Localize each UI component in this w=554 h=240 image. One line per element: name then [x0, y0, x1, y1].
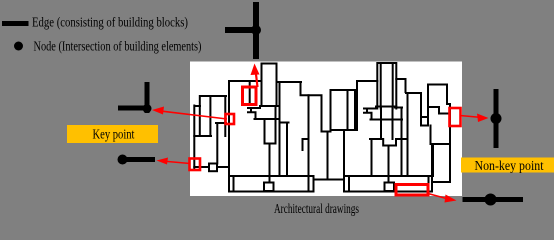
arrowhead non-key vertical: [477, 114, 489, 123]
right edge vertical: [447, 104, 450, 182]
arrow up from RB1: [256, 70, 258, 87]
key point corner node dot: [143, 104, 152, 113]
tower' floor line: [376, 106, 396, 108]
right wing step: [277, 82, 322, 95]
key point end node dot: [118, 155, 128, 165]
tower' outline: [377, 63, 396, 109]
right wing' stair: [430, 126, 432, 145]
center descender to right base: [343, 130, 345, 192]
left wing mid vertical and ledge: [216, 123, 226, 164]
tower' stem to foot: [388, 146, 390, 183]
stairs below B1: [248, 108, 260, 119]
non-key horizontal line: [463, 197, 524, 202]
right base rect: [344, 144, 432, 192]
example T junction node dot: [251, 25, 261, 35]
right wing stairs: [303, 139, 309, 150]
arrowhead key point end: [157, 158, 169, 165]
right wing' upper step: [396, 79, 421, 93]
right wing' ledge: [395, 108, 402, 177]
key point end element horizontal line: [122, 157, 155, 162]
red box RB3 left edge: [190, 159, 201, 171]
legend node dot: [14, 42, 23, 51]
svg-text:Architectural drawings: Architectural drawings: [274, 201, 359, 216]
base connector: [314, 179, 345, 181]
white drawing canvas: [190, 62, 462, 197]
right wing tall edge: [322, 96, 331, 132]
key point corner element vertical line: [145, 82, 150, 113]
non-key horizontal node dot: [485, 194, 497, 206]
arrow to key point end: [162, 161, 190, 164]
block B1 inner divider: [249, 81, 251, 105]
right of tower ledge: [280, 123, 289, 177]
svg-text:Edge (consisting of building b: Edge (consisting of building blocks): [32, 15, 188, 30]
left wing upper rect: [194, 96, 226, 136]
tower' slab steps: [364, 109, 402, 120]
arrowhead key point corner: [152, 107, 164, 115]
right tail ledge: [433, 144, 450, 176]
tower' foot square: [385, 183, 395, 192]
svg-text:Node (Intersection of building: Node (Intersection of building elements): [34, 39, 202, 54]
non-key label box: [461, 158, 554, 173]
svg-text:Non-key point: Non-key point: [475, 158, 544, 173]
right mid block with notch: [370, 139, 406, 146]
arrow to key point corner: [158, 111, 227, 119]
key point corner element horizontal line: [118, 106, 149, 111]
key point label box: [67, 125, 158, 143]
red box RB1 near tower top: [243, 87, 257, 105]
right wing' descender: [407, 93, 409, 176]
left wing bottom ledge: [194, 166, 229, 168]
arrowhead up: [251, 64, 260, 76]
left wing foot square: [209, 164, 217, 172]
architectural line drawing: [194, 63, 450, 192]
block B1' top: [357, 80, 377, 82]
tower foot square: [264, 183, 274, 192]
red box RB4 right edge: [450, 108, 461, 126]
block B1 top: [229, 80, 262, 82]
red highlight boxes and arrows: [158, 70, 482, 200]
tower stem to foot: [269, 144, 271, 183]
legend edge sample line: [2, 21, 29, 26]
left base rect: [229, 176, 314, 192]
tower outline: [262, 64, 280, 177]
center block C: [331, 90, 358, 130]
non-key vertical line: [494, 89, 499, 148]
example T junction vertical line: [253, 2, 259, 59]
block B1 left edge: [228, 81, 230, 192]
center vertical: [327, 132, 329, 180]
non-key vertical node dot: [491, 113, 502, 124]
red box RB2 mid left: [226, 114, 235, 124]
block B1' left edge: [356, 81, 358, 130]
svg-text:Key point: Key point: [93, 127, 135, 142]
left wing leftmost vertical: [194, 106, 200, 169]
red box RB5 bottom: [396, 185, 428, 196]
tower lower column: [265, 106, 276, 144]
right tail connector: [433, 181, 450, 183]
right wing' ladder column: [421, 85, 428, 126]
tower floor line: [260, 105, 280, 107]
arrowhead non-key line: [445, 195, 457, 203]
right wing' top block bottom steps: [429, 107, 451, 114]
right wing long descender: [308, 95, 310, 191]
arrow from RB5 to non-key line: [428, 194, 450, 200]
example T junction horizontal line: [225, 27, 259, 33]
right wing' top block: [429, 85, 448, 105]
tower slab bottom: [255, 118, 280, 120]
arrow to non-key vertical: [460, 116, 482, 118]
tower' lower column: [381, 109, 393, 140]
right mid block sides: [371, 139, 373, 176]
